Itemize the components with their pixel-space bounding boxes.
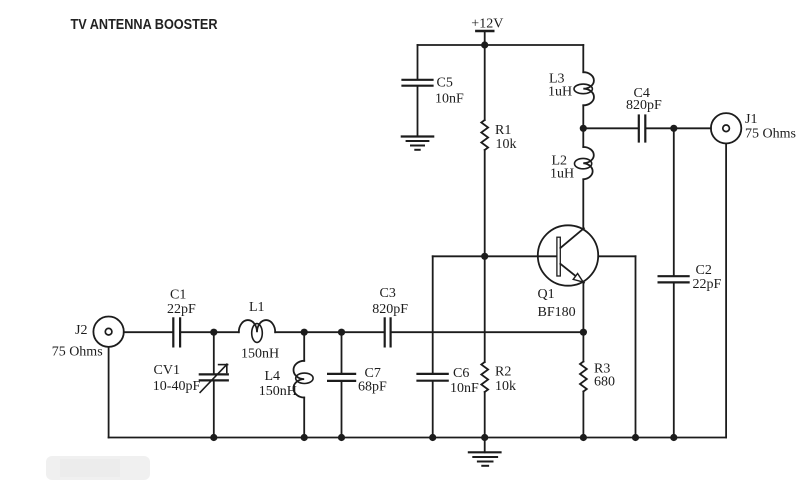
wire: junction down to C2: [673, 128, 675, 275]
wire: R1 to base node: [484, 150, 486, 256]
wire: C4 to J1: [646, 127, 711, 129]
ground (bottom): [469, 438, 501, 466]
junction: C6/rail: [429, 434, 436, 441]
connector J1: [711, 113, 741, 143]
wire: junction to C4: [583, 127, 638, 129]
junction: CV1/rail: [210, 434, 217, 441]
junction: rail/R1: [481, 41, 488, 48]
inductor L4: [293, 361, 313, 398]
junction: R3/rail: [580, 434, 587, 441]
wire: J1 down to rail: [725, 144, 727, 438]
watermark smudge: [46, 456, 150, 480]
svg-text:R2: R2: [495, 365, 511, 380]
svg-text:C2: C2: [696, 263, 712, 278]
svg-text:10nF: 10nF: [435, 92, 464, 107]
svg-text:820pF: 820pF: [372, 302, 408, 317]
junction: Q1-right/rail: [632, 434, 639, 441]
svg-text:Q1: Q1: [538, 287, 555, 302]
junction: C7 top: [338, 329, 345, 336]
wire: rail to C5: [417, 45, 419, 79]
svg-text:BF180: BF180: [538, 305, 576, 320]
wire: emitter down: [582, 283, 584, 333]
svg-text:150nH: 150nH: [241, 346, 279, 361]
wire: C2 to rail: [673, 283, 675, 437]
wire: L4 branch: [303, 332, 305, 361]
wire: C7 branch: [341, 332, 343, 373]
svg-text:J2: J2: [75, 323, 87, 338]
wire: junction to L3: [582, 105, 584, 128]
wire: R2 to rail: [484, 392, 486, 438]
wire: J2 to C1: [124, 331, 173, 333]
svg-text:CV1: CV1: [154, 363, 180, 378]
svg-text:10k: 10k: [495, 379, 516, 394]
wire: L4 to rail: [303, 398, 305, 438]
svg-text:1uH: 1uH: [550, 167, 574, 182]
svg-text:22pF: 22pF: [693, 277, 722, 292]
junction: L3/L2/C4: [580, 125, 587, 132]
svg-text:10nF: 10nF: [450, 381, 479, 396]
wire: J2 down: [108, 347, 110, 438]
svg-text:C3: C3: [380, 286, 396, 301]
capacitor C4: [639, 116, 646, 142]
wire: L2 top to junction: [582, 128, 584, 147]
wire: C1 to CV1 node: [181, 331, 239, 333]
wire: collector up: [582, 179, 584, 229]
wire: C7 to rail: [341, 382, 343, 438]
inductor L1: [239, 320, 275, 342]
junction: C4/C2/J1: [670, 125, 677, 132]
inductor L3: [574, 72, 594, 105]
wire: L1 to C3: [275, 331, 383, 333]
svg-text:+12V: +12V: [471, 16, 503, 31]
wire: rail down to L3: [582, 45, 584, 72]
wire: bottom rail: [109, 437, 727, 439]
wire: base node to R2: [484, 256, 486, 362]
junction: L4 top: [301, 329, 308, 336]
svg-text:L1: L1: [249, 300, 265, 315]
wire: rail to R1: [484, 45, 486, 120]
svg-text:1uH: 1uH: [548, 85, 572, 100]
wire: +12V top rail: [418, 44, 584, 46]
junction: L4/rail: [301, 434, 308, 441]
capacitor C6: [418, 374, 448, 381]
ground (under C5): [402, 137, 433, 150]
capacitor C7: [328, 374, 355, 381]
svg-text:10-40pF: 10-40pF: [153, 379, 201, 394]
svg-text:R1: R1: [495, 123, 511, 138]
svg-text:C6: C6: [453, 366, 469, 381]
wire: down to rail: [635, 256, 637, 437]
resistor R2: [481, 362, 488, 392]
wire: C5 to ground: [417, 87, 419, 137]
capacitor C2: [659, 276, 689, 282]
svg-text:22pF: 22pF: [167, 302, 196, 317]
svg-text:L4: L4: [265, 369, 281, 384]
svg-text:J1: J1: [745, 112, 757, 127]
wire: Q1 right side: [598, 255, 635, 257]
svg-text:C1: C1: [170, 288, 186, 303]
junction: R2/ground: [481, 434, 488, 441]
svg-text:TV ANTENNA BOOSTER: TV ANTENNA BOOSTER: [71, 17, 218, 33]
svg-text:820pF: 820pF: [626, 98, 662, 113]
wire: C3 to emitter node: [392, 331, 584, 333]
connector J2: [93, 317, 123, 347]
svg-text:C5: C5: [437, 76, 453, 91]
capacitor CV1: [200, 332, 228, 437]
wire: base node left: [433, 255, 485, 257]
svg-text:150nH: 150nH: [259, 384, 297, 399]
junction: C7/rail: [338, 434, 345, 441]
resistor R3: [580, 362, 587, 392]
resistor R1: [481, 120, 488, 150]
capacitor C3: [385, 318, 391, 346]
junction: base node: [481, 253, 488, 260]
svg-text:75 Ohms: 75 Ohms: [745, 127, 796, 142]
power symbol +12V: [476, 31, 493, 45]
capacitor C5: [403, 80, 433, 86]
inductor L2: [575, 147, 594, 179]
junction: C1/CV1: [210, 329, 217, 336]
wire: emitter node to R3: [582, 332, 584, 361]
junction: emitter/C3: [580, 329, 587, 336]
svg-text:680: 680: [594, 375, 615, 390]
svg-text:10k: 10k: [496, 137, 517, 152]
wire: base node to Q1 base: [485, 255, 557, 257]
svg-text:68pF: 68pF: [358, 380, 387, 395]
junction: C2/rail: [670, 434, 677, 441]
transistor Q1: [538, 225, 598, 285]
wire: C6 to rail: [432, 382, 434, 438]
svg-text:75 Ohms: 75 Ohms: [52, 344, 103, 359]
capacitor C1: [173, 318, 180, 346]
wire: down to C6: [432, 256, 434, 373]
wire: R3 to rail: [582, 392, 584, 438]
